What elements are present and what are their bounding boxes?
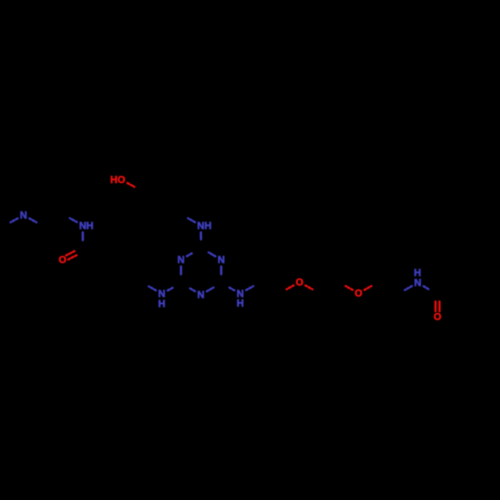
svg-text:N: N [414, 278, 421, 289]
svg-text:N: N [20, 210, 27, 221]
svg-text:NH: NH [197, 221, 211, 232]
svg-text:N: N [197, 290, 204, 301]
svg-text:O: O [296, 277, 304, 288]
svg-text:N: N [177, 255, 184, 266]
svg-text:H: H [158, 299, 165, 310]
svg-text:O: O [59, 255, 67, 266]
svg-text:H: H [237, 299, 244, 310]
svg-text:HO: HO [110, 175, 125, 186]
svg-text:O: O [355, 289, 363, 300]
svg-text:O: O [434, 312, 442, 323]
svg-text:NH: NH [79, 221, 93, 232]
svg-text:H: H [414, 268, 421, 279]
svg-text:N: N [218, 255, 225, 266]
